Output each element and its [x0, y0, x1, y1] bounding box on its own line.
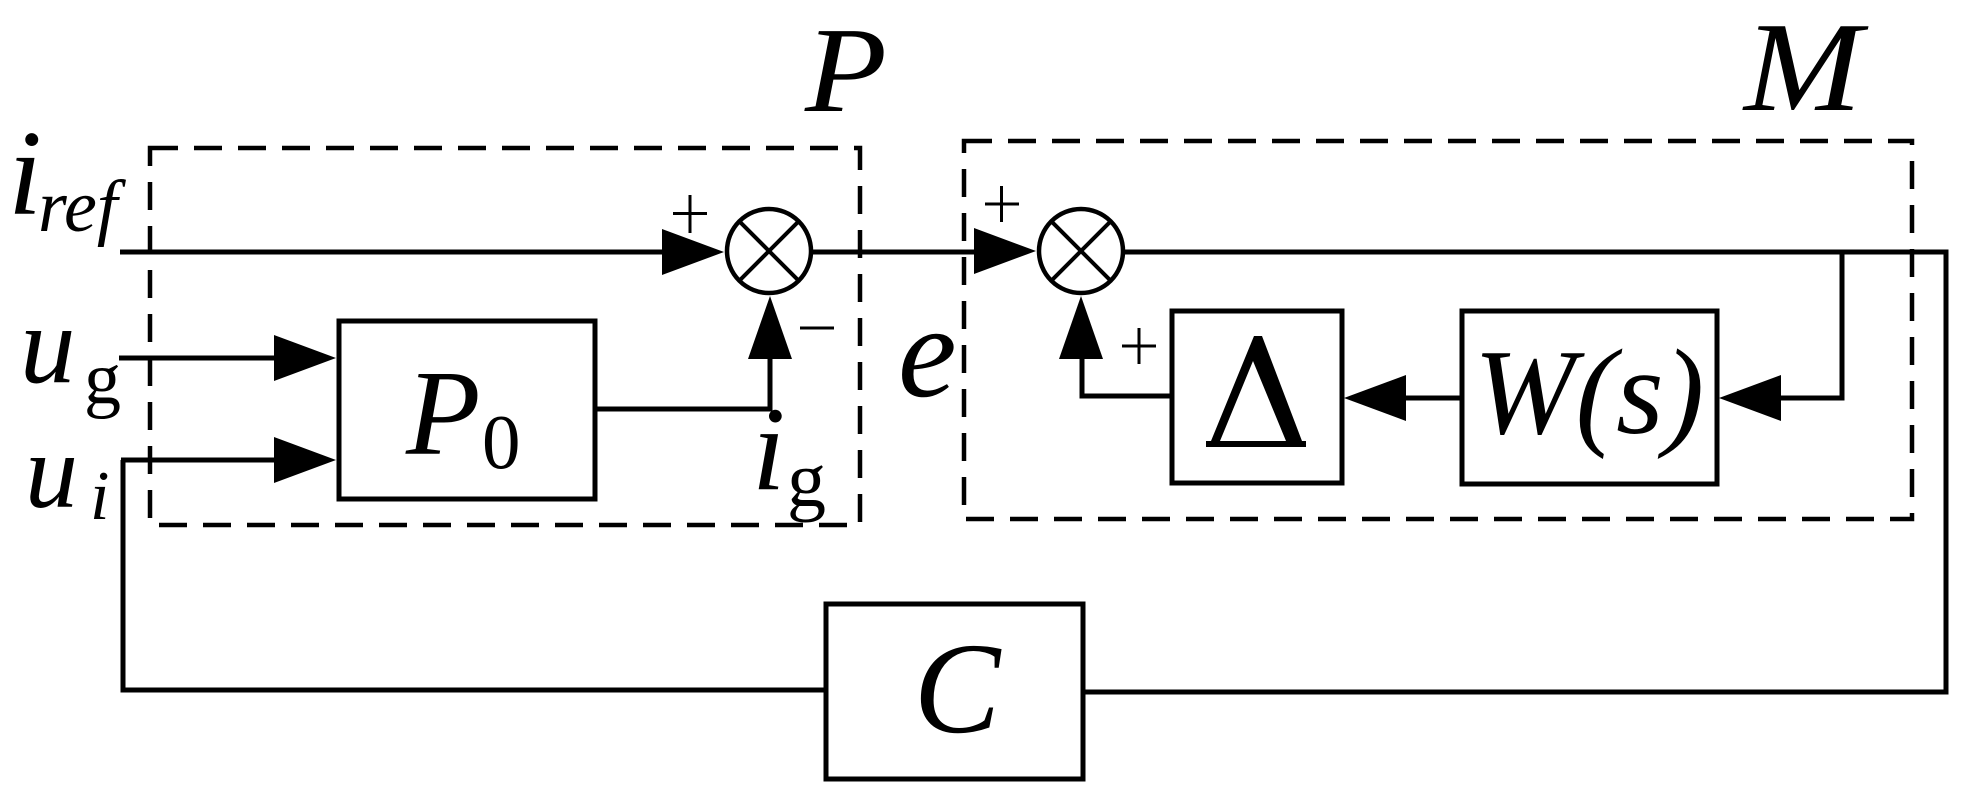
wire u_i into P0: [121, 458, 277, 463]
node u_g label: [20, 284, 121, 420]
arrowhead u_g into P0: [274, 335, 336, 381]
svg-text:i: i: [752, 382, 785, 515]
node u_i label: [25, 413, 109, 535]
block C: [826, 604, 1083, 779]
label Delta: [1206, 336, 1306, 447]
arrowhead into S1 bottom: [748, 296, 792, 359]
svg-text:P: P: [804, 3, 887, 138]
wire S1 to S2: [811, 250, 975, 255]
svg-text:W(s): W(s): [1474, 325, 1704, 460]
svg-text:u: u: [20, 284, 76, 407]
plus sign at S2 lower input: [1122, 328, 1156, 364]
plus sign at S1 input: [673, 195, 707, 233]
svg-text:0: 0: [482, 399, 521, 485]
label P0: [405, 346, 521, 485]
node i_g label: [752, 382, 826, 523]
plus sign at S2 input: [985, 186, 1019, 222]
wire P0 output up to S1: [595, 352, 770, 409]
summing junction S2: [1039, 209, 1123, 293]
block W(s): [1462, 311, 1717, 484]
wire S2 output right, down and back to C output: [1083, 252, 1946, 692]
svg-text:i: i: [8, 106, 42, 241]
svg-text:C: C: [914, 617, 1002, 761]
svg-text:i: i: [90, 458, 109, 535]
wire u_i down to C input: [123, 460, 826, 690]
minus sign at S1 lower input: [800, 327, 834, 330]
wire u_g into P0: [119, 356, 277, 361]
svg-text:u: u: [25, 413, 78, 530]
dashed box M: [964, 141, 1912, 519]
wire W(s) output to Delta: [1404, 396, 1462, 401]
svg-text:g: g: [787, 436, 826, 523]
dashed box P: [150, 148, 860, 525]
svg-text:e: e: [898, 278, 957, 425]
wire i_ref to summing junction S1: [120, 250, 666, 255]
arrowhead into Delta right: [1344, 375, 1406, 421]
block P0: [339, 321, 595, 499]
summing junction S1: [727, 209, 811, 293]
arrowhead into W(s) right: [1719, 375, 1781, 421]
node i_ref label: [8, 106, 127, 248]
svg-text:ref: ref: [38, 166, 127, 248]
arrowhead u_i into P0: [274, 437, 336, 483]
wire branch from main line into W(s): [1781, 252, 1842, 398]
arrowhead into S2: [974, 228, 1036, 274]
block Delta: [1172, 311, 1342, 483]
wire Delta output to S2: [1082, 352, 1172, 396]
svg-text:P: P: [405, 346, 481, 481]
arrowhead into S1: [662, 229, 724, 275]
svg-text:g: g: [84, 338, 121, 420]
arrowhead into S2 bottom: [1059, 296, 1103, 359]
svg-text:M: M: [1742, 0, 1869, 138]
